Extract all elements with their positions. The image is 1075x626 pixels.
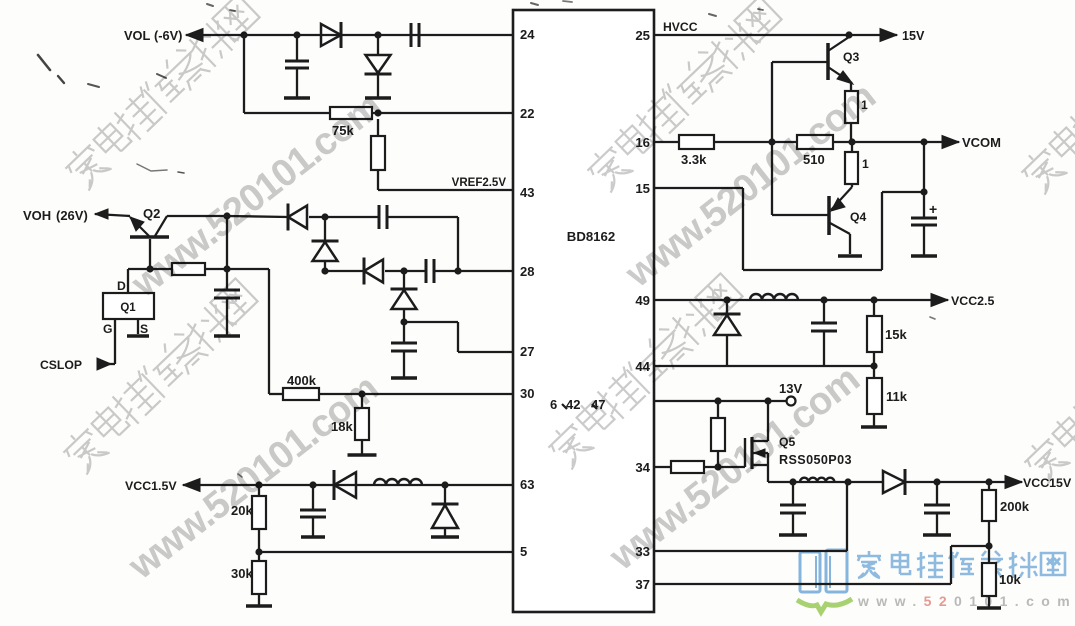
svg-text:63: 63 [520,477,534,492]
svg-text:30: 30 [520,386,534,401]
svg-text:VOL: VOL [124,28,150,43]
svg-text:HVCC: HVCC [663,20,698,34]
svg-text:25: 25 [635,28,650,43]
svg-text:1: 1 [862,157,869,171]
svg-text:VCOM: VCOM [962,135,1001,150]
svg-text:11k: 11k [886,389,908,404]
svg-text:Q1: Q1 [120,302,136,314]
svg-text:27: 27 [520,344,534,359]
svg-text:34: 34 [635,460,650,475]
svg-text:6: 6 [550,397,557,412]
svg-text:22: 22 [520,106,534,121]
svg-text:400k: 400k [287,373,317,388]
svg-text:42: 42 [566,397,580,412]
svg-text:200k: 200k [1000,499,1030,514]
svg-text:28: 28 [520,264,534,279]
svg-text:VOH: VOH [23,208,51,223]
svg-text:S: S [140,322,148,336]
svg-text:24: 24 [520,27,535,42]
svg-text:15V: 15V [902,29,925,43]
svg-text:VREF2.5V: VREF2.5V [452,177,507,189]
svg-text:BD8162: BD8162 [567,229,615,244]
svg-text:30k: 30k [231,566,253,581]
svg-text:VCC1.5V: VCC1.5V [125,479,177,493]
svg-text:15k: 15k [885,327,907,342]
svg-text:Q2: Q2 [143,206,160,221]
svg-text:www.520101.com: www.520101.com [857,593,1075,609]
svg-text:5: 5 [520,544,527,559]
svg-text:43: 43 [520,185,534,200]
svg-text:3.3k: 3.3k [681,152,707,167]
svg-text:(-6V): (-6V) [154,28,182,43]
svg-text:VCC2.5: VCC2.5 [951,294,994,308]
svg-text:(26V): (26V) [56,208,88,223]
svg-text:Q3: Q3 [843,50,859,64]
svg-text:RSS050P03: RSS050P03 [779,453,852,467]
svg-text:15: 15 [635,181,650,196]
svg-text:G: G [103,322,112,336]
svg-text:+: + [929,201,937,217]
svg-text:10k: 10k [999,572,1021,587]
svg-text:37: 37 [635,577,650,592]
svg-text:D: D [117,279,126,293]
svg-text:CSLOP: CSLOP [40,358,82,372]
svg-text:Q4: Q4 [850,210,866,224]
